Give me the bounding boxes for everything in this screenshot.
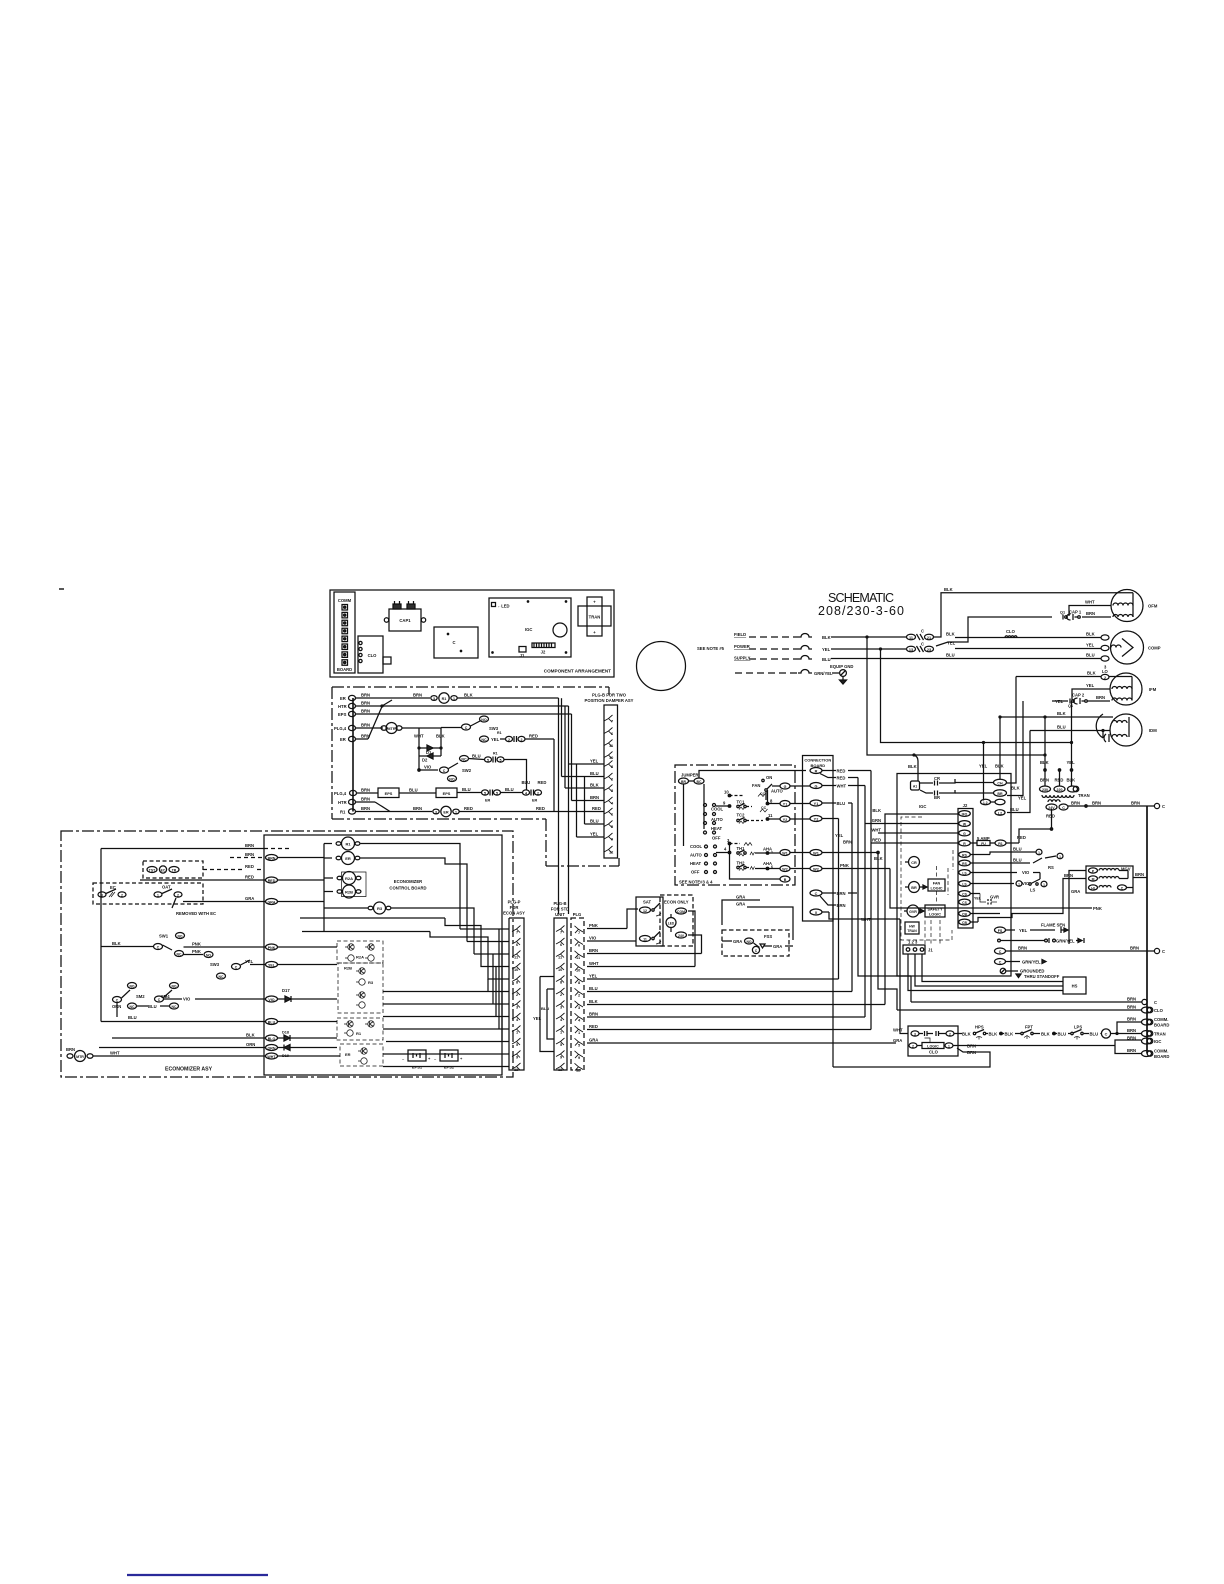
svg-text:W1: W1 bbox=[782, 851, 787, 855]
wire blk long into IGC bbox=[885, 814, 895, 1005]
svg-text:1: 1 bbox=[1043, 883, 1045, 887]
svg-text:2: 2 bbox=[949, 1032, 951, 1036]
svg-text:2: 2 bbox=[1104, 676, 1106, 680]
svg-text:CLO: CLO bbox=[1154, 1008, 1164, 1013]
CB wires bbox=[971, 873, 1087, 922]
svg-text:SUPPLY: SUPPLY bbox=[734, 656, 751, 661]
svg-text:CH: CH bbox=[997, 781, 1003, 785]
right terminal column bbox=[897, 806, 1169, 1059]
svg-text:NC: NC bbox=[461, 757, 467, 761]
svg-text:BRN: BRN bbox=[66, 1047, 75, 1052]
svg-text:FPT: FPT bbox=[1025, 1025, 1033, 1030]
IDM phase arc bbox=[1096, 714, 1109, 742]
L2 oval pair bbox=[995, 799, 1005, 815]
svg-text:ER: ER bbox=[345, 856, 351, 861]
svg-text:BLU: BLU bbox=[409, 788, 418, 793]
switch SW2 VIO bbox=[419, 756, 472, 782]
wires to damper plug pins bbox=[562, 698, 605, 837]
J2 connector strip bbox=[958, 803, 973, 928]
svg-text:D2: D2 bbox=[422, 758, 428, 763]
tiny stray mark top-left bbox=[59, 588, 64, 590]
svg-text:PLG,4: PLG,4 bbox=[334, 791, 347, 796]
svg-text:PLG-B: PLG-B bbox=[553, 901, 566, 906]
svg-text:WHT: WHT bbox=[414, 734, 424, 739]
safety chain HPS bbox=[954, 1025, 1013, 1040]
svg-text:Q1: Q1 bbox=[1060, 611, 1065, 615]
svg-text:CAP 1: CAP 1 bbox=[1069, 610, 1082, 615]
svg-text:11: 11 bbox=[768, 813, 773, 818]
svg-text:OFF: OFF bbox=[712, 836, 721, 841]
wire vertical blk-ifm down bbox=[1007, 677, 1016, 784]
svg-text:BRN: BRN bbox=[589, 948, 598, 953]
terminal W1 bbox=[810, 850, 878, 856]
HW TRAN box bbox=[905, 922, 919, 934]
svg-text:LED: LED bbox=[668, 921, 675, 925]
MGV box bbox=[1086, 866, 1133, 893]
wire BRN to 24V bbox=[587, 935, 702, 954]
svg-text:C: C bbox=[1105, 1032, 1108, 1036]
svg-text:YEL: YEL bbox=[1067, 760, 1076, 765]
svg-text:Y1: Y1 bbox=[783, 802, 787, 806]
ORN BLU chain row bbox=[112, 1003, 179, 1020]
svg-text:CAP1: CAP1 bbox=[399, 618, 411, 623]
wire R row bbox=[699, 771, 806, 779]
svg-text:ER: ER bbox=[485, 799, 491, 803]
svg-text:11: 11 bbox=[909, 636, 913, 640]
svg-text:BRN: BRN bbox=[1127, 1028, 1136, 1033]
svg-text:R1: R1 bbox=[998, 842, 1003, 846]
wire vertical yel to L2 oval bbox=[983, 743, 985, 801]
svg-text:FOR: FOR bbox=[510, 905, 519, 910]
L3 supply wire dashed bbox=[749, 658, 798, 660]
svg-text:2: 2 bbox=[177, 893, 179, 897]
svg-text:208/230-3-60: 208/230-3-60 bbox=[818, 604, 904, 618]
svg-text:WHT: WHT bbox=[893, 1028, 903, 1033]
wire RED long bbox=[587, 1024, 871, 1030]
svg-text:21: 21 bbox=[927, 636, 931, 640]
svg-text:J1: J1 bbox=[520, 653, 525, 658]
svg-text:W2: W2 bbox=[782, 867, 787, 871]
svg-text:R: R bbox=[815, 769, 818, 773]
W2 terminal bbox=[780, 866, 810, 872]
FS flame sensor row bbox=[995, 923, 1069, 934]
svg-text:RED: RED bbox=[245, 875, 254, 880]
contactor C contacts L1 bbox=[907, 629, 934, 641]
FSS dashed box bbox=[722, 930, 793, 956]
terminal W2 bbox=[810, 863, 890, 872]
svg-text:ECON ONLY: ECON ONLY bbox=[664, 900, 689, 905]
svg-text:BRN: BRN bbox=[843, 840, 852, 845]
svg-text:ORN: ORN bbox=[246, 1042, 255, 1047]
svg-text:VIO: VIO bbox=[424, 765, 432, 770]
diodes D1 D2 bbox=[414, 728, 445, 771]
svg-text:RED: RED bbox=[1017, 835, 1026, 840]
svg-text:CB: CB bbox=[962, 921, 967, 925]
svg-text:PNK: PNK bbox=[192, 942, 201, 947]
transistor cluster R2B dashed box bbox=[338, 963, 383, 1013]
svg-text:BLK: BLK bbox=[1011, 786, 1020, 791]
svg-text:NO: NO bbox=[746, 940, 751, 944]
svg-text:MTR: MTR bbox=[387, 727, 395, 731]
svg-text:R1: R1 bbox=[356, 1031, 362, 1036]
damper left bus bbox=[352, 698, 354, 812]
svg-text:FSS: FSS bbox=[764, 934, 772, 939]
svg-text:GRA: GRA bbox=[245, 896, 254, 901]
damper plug PLG-B strip bbox=[604, 705, 618, 858]
wire tran C to right bus BRN bbox=[1068, 801, 1165, 810]
J2 input stubs bbox=[895, 814, 959, 843]
svg-text:BLK: BLK bbox=[1067, 778, 1076, 783]
svg-text:RED: RED bbox=[872, 838, 881, 843]
svg-text:RED: RED bbox=[592, 806, 601, 811]
svg-text:BLU: BLU bbox=[1090, 1032, 1099, 1037]
wire blk branch to A1 bbox=[914, 755, 918, 781]
svg-text:SAFETY: SAFETY bbox=[928, 908, 943, 912]
wire tran 24V RED to 5amp fuse bbox=[1017, 809, 1055, 843]
svg-text:BLK: BLK bbox=[989, 1032, 998, 1037]
svg-text:C: C bbox=[921, 629, 924, 634]
svg-text:LS: LS bbox=[962, 871, 967, 875]
L1 riser to OFM bbox=[934, 593, 1112, 637]
svg-text:RED: RED bbox=[589, 1024, 598, 1029]
svg-text:L2: L2 bbox=[998, 811, 1002, 815]
contactor C contacts L2 bbox=[907, 642, 934, 653]
svg-text:ORN: ORN bbox=[268, 1046, 276, 1050]
svg-text:BRN: BRN bbox=[1086, 611, 1095, 616]
damper row HTR bbox=[338, 700, 569, 709]
svg-text:EPS: EPS bbox=[443, 791, 451, 796]
svg-text:FU: FU bbox=[981, 842, 986, 846]
svg-text:ER: ER bbox=[345, 1052, 351, 1057]
svg-text:W1: W1 bbox=[813, 851, 819, 855]
svg-text:230: 230 bbox=[1042, 788, 1048, 792]
svg-text:IDM: IDM bbox=[1149, 728, 1157, 733]
svg-text:C: C bbox=[999, 950, 1002, 954]
cool auto heat off selector (upper) bbox=[704, 804, 724, 841]
svg-text:BLU: BLU bbox=[128, 1015, 137, 1020]
SAFETY LOGIC box bbox=[925, 905, 945, 917]
svg-text:YEL: YEL bbox=[1086, 643, 1095, 648]
L1 continues to CLO coil bbox=[955, 637, 1101, 639]
wire BRN long bbox=[587, 1012, 865, 1018]
svg-text:BOARD: BOARD bbox=[1154, 1054, 1169, 1059]
wire WHT to COM bbox=[587, 911, 695, 967]
svg-text:REMOVED WITH EC: REMOVED WITH EC bbox=[176, 911, 216, 916]
CLO output BRN fork bbox=[833, 1040, 1141, 1067]
svg-text:BR: BR bbox=[911, 886, 917, 890]
motor OFM bbox=[1111, 590, 1158, 622]
svg-text:BRN: BRN bbox=[1130, 946, 1139, 951]
svg-text:WHT: WHT bbox=[861, 917, 871, 922]
switch SW3 (econ) bbox=[210, 959, 337, 979]
svg-text:C: C bbox=[452, 640, 455, 645]
svg-text:BLU: BLU bbox=[1058, 1032, 1067, 1037]
svg-text:C: C bbox=[815, 892, 818, 896]
svg-text:BRN: BRN bbox=[590, 795, 599, 800]
svg-text:HI: HI bbox=[1091, 886, 1094, 890]
svg-text:IGC: IGC bbox=[1154, 1039, 1161, 1044]
svg-text:LO: LO bbox=[1102, 669, 1109, 674]
svg-text:WHT: WHT bbox=[589, 961, 599, 966]
RS rollout switch bbox=[971, 847, 1064, 871]
svg-text:BRN: BRN bbox=[1096, 695, 1105, 700]
svg-text:BLK: BLK bbox=[1057, 711, 1066, 716]
svg-text:PNK: PNK bbox=[192, 949, 201, 954]
wire W2 pnk drop bbox=[890, 869, 1092, 909]
svg-text:PNK: PNK bbox=[1093, 906, 1102, 911]
svg-text:BC: BC bbox=[697, 780, 702, 784]
svg-text:BLO: BLO bbox=[268, 1037, 276, 1041]
svg-text:COMM.: COMM. bbox=[1154, 1049, 1168, 1054]
svg-text:BOARD: BOARD bbox=[337, 667, 352, 672]
svg-text:RED: RED bbox=[1055, 778, 1064, 783]
wire C brn drop long return bbox=[832, 905, 834, 1067]
EC TST TR jumper row bbox=[143, 861, 264, 878]
svg-text:2: 2 bbox=[121, 893, 123, 897]
wire vertical to tran C bbox=[1071, 701, 1073, 786]
econ left vertical bus bbox=[100, 849, 102, 1022]
svg-text:GRA: GRA bbox=[736, 902, 745, 907]
svg-text:NC: NC bbox=[219, 975, 224, 979]
OFM WHT lead bbox=[1069, 600, 1111, 617]
svg-text:GRA: GRA bbox=[1071, 889, 1080, 894]
terminal Y2 bbox=[810, 816, 852, 845]
MGV P feed GRA bbox=[1069, 871, 1086, 945]
svg-text:FAN: FAN bbox=[933, 882, 941, 886]
svg-text:FOR STD: FOR STD bbox=[551, 907, 569, 912]
PLG-B std unit strip bbox=[554, 918, 567, 1072]
transformer TRAN secondary bbox=[1046, 800, 1068, 810]
svg-text:BRN: BRN bbox=[361, 806, 370, 811]
svg-text:J2: J2 bbox=[963, 803, 968, 808]
svg-text:CB: CB bbox=[962, 912, 967, 916]
svg-text:R1: R1 bbox=[497, 731, 502, 735]
fuse L1 bbox=[798, 634, 812, 637]
svg-text:BRN: BRN bbox=[413, 806, 422, 811]
wire vertical blu-idm down bbox=[1007, 731, 1030, 813]
CR contact bbox=[920, 776, 955, 786]
svg-text:GRN/YEL: GRN/YEL bbox=[1056, 939, 1075, 944]
svg-text:W2: W2 bbox=[813, 867, 819, 871]
svg-text:GRN/YEL: GRN/YEL bbox=[1022, 960, 1041, 965]
svg-text:NO: NO bbox=[177, 934, 182, 938]
svg-text:C: C bbox=[1162, 949, 1165, 954]
svg-text:A1: A1 bbox=[913, 785, 917, 789]
svg-text:24V: 24V bbox=[678, 934, 685, 938]
FSS GRA loop wires bbox=[722, 895, 793, 941]
wire red into IGC bbox=[871, 842, 895, 844]
svg-text:COM: COM bbox=[677, 910, 685, 914]
svg-text:BLU: BLU bbox=[590, 819, 599, 824]
svg-text:RED: RED bbox=[536, 806, 545, 811]
TH2 contact bbox=[737, 861, 781, 871]
damper row R1/ER relay bbox=[340, 806, 604, 817]
FAN LOGIC box bbox=[928, 879, 945, 891]
svg-text:RED: RED bbox=[268, 879, 276, 883]
transistor cluster R1/ER bbox=[337, 1018, 383, 1040]
SAT switch box bbox=[636, 897, 663, 946]
C grn/yel row bbox=[995, 959, 1047, 965]
svg-text:EPS: EPS bbox=[385, 791, 393, 796]
svg-text:BLU: BLU bbox=[822, 657, 831, 662]
equip gnd symbol bbox=[830, 664, 853, 684]
svg-text:R1: R1 bbox=[345, 841, 351, 846]
svg-text:HPS: HPS bbox=[975, 1025, 984, 1030]
svg-text:1: 1 bbox=[455, 810, 457, 814]
svg-text:NC: NC bbox=[177, 952, 182, 956]
svg-text:23: 23 bbox=[927, 648, 931, 652]
svg-text:YEL: YEL bbox=[590, 832, 599, 837]
svg-text:ON: ON bbox=[766, 775, 772, 780]
svg-text:BLU: BLU bbox=[505, 787, 514, 792]
safety chain LPS bbox=[1068, 1025, 1101, 1040]
svg-text:220: 220 bbox=[1057, 788, 1063, 792]
LS limit switch bbox=[971, 870, 1048, 893]
svg-text:12: 12 bbox=[643, 909, 647, 913]
YEL branch up to CAP1 bbox=[936, 617, 1052, 646]
svg-text:BRN: BRN bbox=[245, 843, 254, 848]
L2 wire continues to COMP bbox=[955, 648, 1101, 650]
svg-text:G: G bbox=[784, 785, 787, 789]
capacitor CAP 2 bbox=[1052, 693, 1110, 709]
svg-text:YEL: YEL bbox=[245, 959, 254, 964]
svg-text:R2B: R2B bbox=[344, 966, 352, 971]
svg-text:C: C bbox=[1154, 1000, 1157, 1005]
svg-text:1: 1 bbox=[948, 1044, 950, 1048]
svg-text:J2: J2 bbox=[541, 650, 546, 655]
svg-text:BLK: BLK bbox=[995, 764, 1004, 769]
svg-text:YEL: YEL bbox=[947, 641, 956, 646]
fork to terminals bbox=[1116, 1022, 1141, 1035]
svg-text:FLAME SEN: FLAME SEN bbox=[1041, 923, 1065, 928]
svg-text:BLU: BLU bbox=[1013, 847, 1022, 852]
svg-text:5: 5 bbox=[500, 758, 502, 762]
CH oval bbox=[955, 779, 1007, 785]
svg-text:CONNECTION: CONNECTION bbox=[804, 758, 831, 763]
svg-text:JUMPER: JUMPER bbox=[681, 773, 698, 778]
svg-text:BLU: BLU bbox=[589, 986, 598, 991]
svg-text:C: C bbox=[1162, 804, 1165, 809]
relay R3 bbox=[368, 902, 391, 914]
svg-text:MTR: MTR bbox=[76, 1055, 84, 1059]
svg-text:BLU: BLU bbox=[472, 754, 481, 759]
svg-text:WHT: WHT bbox=[871, 828, 881, 833]
svg-text:10: 10 bbox=[576, 968, 580, 973]
damper assy dash-dot border bbox=[332, 687, 619, 866]
svg-text:1: 1 bbox=[1018, 882, 1020, 886]
svg-text:BLU: BLU bbox=[1013, 858, 1022, 863]
svg-text:BRN: BRN bbox=[1071, 801, 1080, 806]
svg-text:NC: NC bbox=[481, 738, 487, 742]
svg-text:BR: BR bbox=[934, 795, 940, 800]
OFM BRN lead bbox=[1082, 611, 1111, 617]
svg-text:LOGIC: LOGIC bbox=[930, 887, 942, 891]
svg-text:PLG-B FOR TWO: PLG-B FOR TWO bbox=[592, 693, 627, 698]
svg-text:PNK: PNK bbox=[589, 923, 598, 928]
svg-text:YEL: YEL bbox=[491, 737, 500, 742]
svg-text:BLU: BLU bbox=[522, 780, 531, 785]
svg-text:BRN: BRN bbox=[837, 891, 846, 896]
svg-text:CLO: CLO bbox=[929, 1050, 939, 1055]
econ plug feed drops bbox=[383, 929, 509, 1067]
svg-text:2: 2 bbox=[912, 1044, 914, 1048]
svg-text:BRN: BRN bbox=[361, 797, 370, 802]
econ left BRN row bbox=[101, 843, 290, 849]
svg-text:BRN: BRN bbox=[1040, 778, 1049, 783]
svg-text:SAT: SAT bbox=[643, 900, 652, 905]
safety chain FPT bbox=[1015, 1025, 1066, 1040]
motor IFM bbox=[1109, 673, 1157, 705]
svg-text:4: 4 bbox=[525, 791, 527, 795]
transistor cluster R2A dashed box bbox=[337, 941, 383, 963]
wire GRA long bbox=[587, 1038, 896, 1044]
svg-text:C: C bbox=[443, 769, 446, 773]
svg-text:TRAN: TRAN bbox=[589, 615, 601, 620]
svg-text:10: 10 bbox=[514, 967, 518, 972]
svg-text:PNK: PNK bbox=[268, 946, 276, 950]
damper row HTR2 bbox=[338, 797, 390, 812]
svg-text:HTR: HTR bbox=[338, 800, 347, 805]
svg-text:BLK: BLK bbox=[1005, 1032, 1014, 1037]
L3 wire to COMP bbox=[831, 658, 1101, 660]
ECON ONLY dashed box bbox=[660, 895, 693, 946]
L2 power wire dashed bbox=[749, 648, 798, 650]
B terminal bbox=[730, 853, 791, 883]
svg-text:BRN: BRN bbox=[1127, 1017, 1136, 1022]
TC2 contact bbox=[737, 813, 781, 824]
svg-text:7: 7 bbox=[516, 930, 518, 935]
relay CR bbox=[905, 857, 920, 868]
terminal C bbox=[810, 890, 857, 908]
svg-text:SW3: SW3 bbox=[210, 962, 220, 967]
svg-text:FAN: FAN bbox=[752, 783, 760, 788]
svg-text:ECONOMIZER ASY: ECONOMIZER ASY bbox=[165, 1067, 213, 1073]
svg-text:GRA: GRA bbox=[773, 944, 782, 949]
svg-text:YEL: YEL bbox=[590, 759, 599, 764]
svg-text:G: G bbox=[815, 784, 818, 788]
J1 to HS wires bbox=[908, 954, 1063, 991]
svg-text:GRA: GRA bbox=[733, 939, 742, 944]
L2 small oval bbox=[981, 799, 996, 805]
econ ORN row + D19 bbox=[99, 1042, 337, 1058]
svg-text:AUTO: AUTO bbox=[690, 853, 703, 858]
svg-text:ER: ER bbox=[340, 696, 346, 701]
svg-text:G: G bbox=[963, 832, 966, 836]
svg-text:3: 3 bbox=[435, 810, 437, 814]
svg-text:PNK: PNK bbox=[840, 863, 849, 868]
svg-text:ER: ER bbox=[443, 810, 449, 814]
terminal G bbox=[810, 783, 865, 789]
svg-text:TRAN: TRAN bbox=[907, 929, 917, 933]
svg-text:7: 7 bbox=[611, 719, 613, 724]
svg-text:BLU: BLU bbox=[1086, 653, 1095, 658]
svg-text:GRA: GRA bbox=[736, 895, 745, 900]
BR contact bbox=[920, 790, 955, 800]
svg-text:BLU: BLU bbox=[1057, 725, 1066, 730]
svg-text:NC: NC bbox=[130, 1005, 135, 1009]
svg-text:2: 2 bbox=[537, 791, 539, 795]
relay R2B bbox=[337, 885, 361, 898]
svg-text:BLK: BLK bbox=[874, 856, 883, 861]
svg-text:7: 7 bbox=[560, 930, 562, 935]
svg-text:10: 10 bbox=[558, 967, 562, 972]
svg-text:YEL: YEL bbox=[1086, 683, 1095, 688]
IFM YEL lead bbox=[1072, 683, 1110, 701]
feeder horizontals lower band bbox=[910, 976, 912, 1002]
svg-text:BRN: BRN bbox=[589, 1012, 598, 1017]
svg-text:C: C bbox=[999, 960, 1002, 964]
svg-text:COOL: COOL bbox=[711, 807, 724, 812]
